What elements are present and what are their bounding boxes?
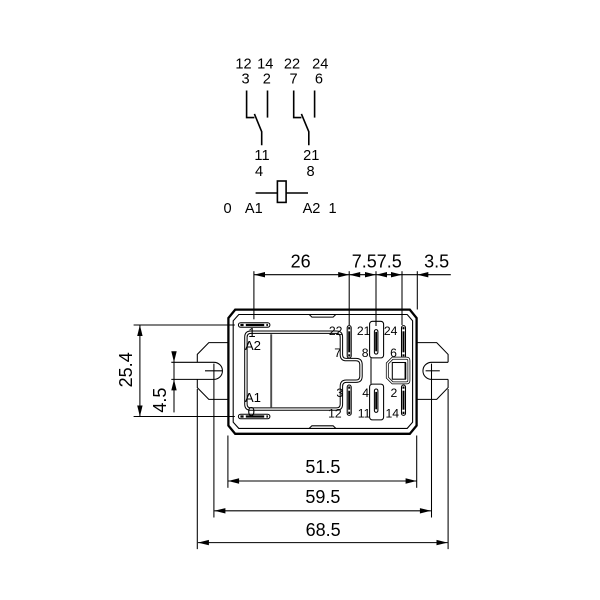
wire coil lead right bbox=[286, 192, 308, 194]
extension line flange right bbox=[447, 389, 449, 549]
arrow 4.5 bottom outside bbox=[171, 379, 176, 390]
svg-text:0: 0 bbox=[224, 201, 232, 217]
pin A1 notch left bbox=[244, 415, 246, 418]
pin 21/8 slot bbox=[374, 330, 378, 355]
svg-text:21: 21 bbox=[303, 148, 319, 164]
pin 22/7 core bbox=[348, 327, 350, 356]
pin 22/7 notch bottom bbox=[348, 352, 350, 354]
svg-text:A2: A2 bbox=[303, 201, 321, 217]
left slot centerline vertical bbox=[213, 364, 215, 518]
pin 3/12 slot bbox=[347, 385, 351, 415]
pin A1 notch right bbox=[264, 415, 266, 418]
arrow 51.5 left bbox=[228, 478, 239, 483]
pin 24/6 slot bbox=[402, 326, 406, 358]
lever common 11/4 bbox=[254, 114, 261, 145]
arrow 68.5 right bbox=[437, 540, 448, 545]
extension line flange left bbox=[196, 389, 198, 549]
pin 2/14 slot bbox=[402, 385, 406, 415]
right mounting flange bbox=[417, 343, 449, 400]
svg-text:6: 6 bbox=[390, 346, 397, 360]
inner cavity wall bbox=[246, 332, 361, 409]
dim line 51.5 bbox=[228, 480, 417, 482]
arrow 26 left bbox=[254, 272, 265, 277]
svg-text:3.5: 3.5 bbox=[424, 252, 449, 272]
svg-text:26: 26 bbox=[291, 252, 311, 272]
svg-text:24: 24 bbox=[312, 57, 328, 73]
pin 3/12 notch bottom bbox=[348, 410, 350, 412]
pin 24/6 notch bottom bbox=[403, 352, 405, 354]
wire NC contact 22/7 with foot bbox=[294, 91, 302, 118]
pin A2 notch right bbox=[264, 324, 266, 327]
pin 2/14 notch bottom bbox=[403, 410, 405, 412]
pin 4/11 slot bbox=[374, 389, 378, 412]
svg-text:59.5: 59.5 bbox=[305, 487, 340, 507]
svg-text:3: 3 bbox=[336, 386, 343, 400]
right slot centerline horizontal bbox=[426, 370, 440, 372]
arrow 59.5 left bbox=[214, 508, 225, 513]
wire coil lead left bbox=[256, 192, 278, 194]
svg-text:11: 11 bbox=[254, 148, 269, 164]
pin 24/6 notch top bbox=[403, 329, 405, 331]
dim line 59.5 bbox=[214, 510, 431, 512]
arrow 26 right bbox=[338, 272, 349, 277]
right flange slot bbox=[423, 362, 448, 379]
pin 6 housing white core bbox=[387, 358, 409, 383]
arrow 68.5 left bbox=[198, 540, 209, 545]
pin A1 core bbox=[240, 415, 268, 417]
arrow 7.5a left bbox=[349, 272, 360, 277]
svg-text:A1: A1 bbox=[245, 201, 263, 217]
pin 2/14 core bbox=[403, 387, 405, 415]
dim line 25.4 bbox=[139, 325, 141, 417]
svg-text:7: 7 bbox=[290, 72, 298, 88]
pin 6 inner right edge bbox=[404, 363, 406, 380]
svg-text:2: 2 bbox=[391, 386, 398, 400]
wire NC contact 12/3 with foot bbox=[247, 91, 255, 118]
pin A2 notch left bbox=[244, 324, 246, 327]
pin 3/12 notch top bbox=[348, 389, 350, 391]
arrow 51.5 right bbox=[406, 478, 417, 483]
svg-text:4.5: 4.5 bbox=[150, 388, 170, 413]
dim line 68.5 bbox=[198, 542, 448, 544]
dim line 4.5 bbox=[173, 353, 175, 413]
extension line body right edge bbox=[416, 271, 418, 309]
wall stub between pin8 and pin4 bbox=[370, 358, 372, 384]
pin 21/8 housing bbox=[370, 321, 384, 358]
svg-text:68.5: 68.5 bbox=[306, 520, 341, 540]
extension line A1 pin center bbox=[134, 416, 235, 418]
svg-text:7: 7 bbox=[334, 346, 341, 360]
pin 2/14 notch top bbox=[403, 389, 405, 391]
arrow 3.5 left outside bbox=[417, 272, 428, 277]
arrow 25.4 bottom bbox=[137, 406, 142, 417]
svg-text:4: 4 bbox=[362, 386, 369, 400]
left mounting flange bbox=[197, 343, 229, 400]
svg-text:11: 11 bbox=[358, 407, 371, 421]
svg-text:A1: A1 bbox=[245, 390, 261, 405]
svg-text:7.5: 7.5 bbox=[352, 252, 377, 272]
svg-text:51.5: 51.5 bbox=[305, 457, 340, 477]
pin 24/6 core bbox=[403, 327, 405, 356]
arrow 7.5a right bbox=[365, 272, 376, 277]
svg-text:21: 21 bbox=[357, 324, 371, 338]
svg-text:25.4: 25.4 bbox=[116, 352, 136, 387]
svg-text:A2: A2 bbox=[245, 338, 261, 353]
extension line body right bbox=[416, 436, 418, 488]
pin A2 slot bbox=[238, 323, 270, 328]
svg-text:2: 2 bbox=[263, 72, 271, 88]
body inner outline bbox=[233, 315, 412, 429]
arrow 7.5b left bbox=[376, 272, 387, 277]
extension line pin column 2 bbox=[375, 271, 377, 326]
pin 6 housing outer bbox=[387, 358, 409, 383]
extension line pin column 1 bbox=[348, 271, 350, 325]
svg-text:8: 8 bbox=[306, 164, 314, 180]
arrow 59.5 right bbox=[420, 508, 431, 513]
svg-text:22: 22 bbox=[329, 324, 343, 338]
pin 6 inner rect bbox=[392, 363, 405, 380]
pin 22/7 notch top bbox=[348, 329, 350, 331]
right slot centerline vertical bbox=[431, 364, 433, 518]
svg-text:4: 4 bbox=[255, 164, 263, 180]
svg-text:8: 8 bbox=[362, 346, 369, 360]
pin 4/11 housing bbox=[370, 384, 384, 420]
svg-text:1: 1 bbox=[328, 201, 336, 217]
svg-text:14: 14 bbox=[386, 407, 400, 421]
svg-text:3: 3 bbox=[241, 72, 249, 88]
extension line A2 pin center bbox=[134, 324, 235, 326]
left slot centerline horizontal bbox=[205, 370, 222, 372]
cavity divider wall bbox=[270, 334, 272, 407]
svg-text:14: 14 bbox=[257, 57, 273, 73]
pin A1 slot bbox=[238, 414, 270, 419]
arrow 4.5 top outside bbox=[171, 351, 176, 362]
coil A1-A2 bbox=[277, 181, 286, 202]
svg-text:12: 12 bbox=[235, 57, 251, 73]
svg-text:12: 12 bbox=[328, 407, 342, 421]
pin A2 core bbox=[240, 324, 268, 326]
svg-text:0: 0 bbox=[248, 404, 255, 419]
svg-text:6: 6 bbox=[315, 72, 323, 88]
dimension line top bbox=[254, 274, 451, 276]
body outer outline bbox=[228, 310, 416, 434]
svg-text:24: 24 bbox=[384, 324, 398, 338]
wire NO contact 14/2 bbox=[267, 91, 269, 118]
pin 3/12 core bbox=[348, 387, 350, 415]
pin 22/7 slot bbox=[347, 326, 351, 358]
extension line pin A2 column bbox=[253, 271, 255, 319]
arrow 25.4 top bbox=[137, 325, 142, 336]
wire NO contact 24/6 bbox=[314, 91, 316, 118]
top edge ledge bbox=[309, 315, 336, 318]
svg-text:22: 22 bbox=[284, 57, 300, 73]
pin 4/11 core bbox=[375, 392, 377, 409]
bottom edge ledge bbox=[309, 426, 336, 429]
arrow 7.5b right bbox=[391, 272, 402, 277]
extension line body left bbox=[227, 436, 229, 488]
left flange slot bbox=[171, 362, 222, 379]
pin 21/8 core bbox=[375, 332, 377, 351]
cavity wall white core bbox=[246, 332, 361, 409]
extension line pin column 3 bbox=[401, 271, 403, 325]
lever common 21/8 bbox=[301, 114, 308, 145]
svg-text:7.5: 7.5 bbox=[377, 252, 402, 272]
